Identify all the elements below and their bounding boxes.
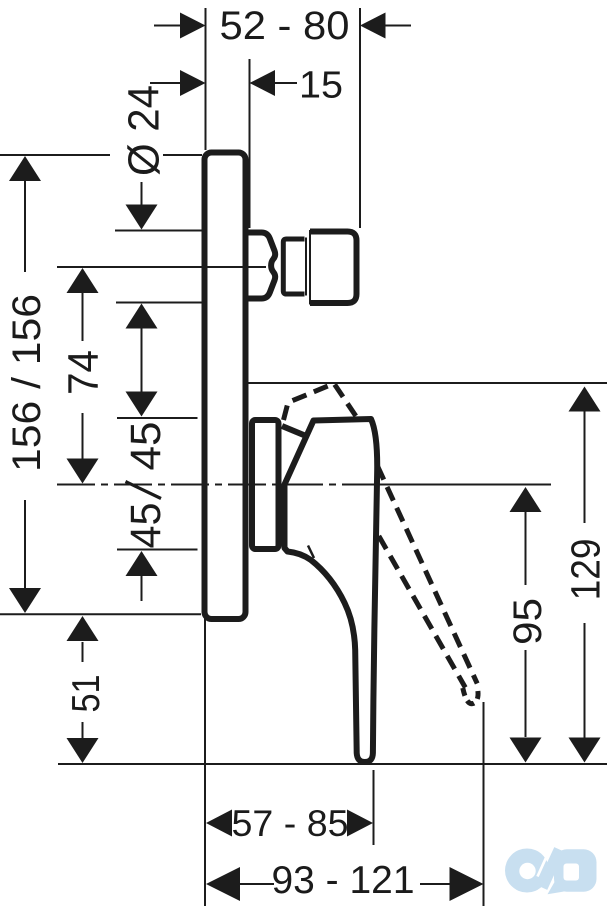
extension line: wall plane (right ext of 15) xyxy=(249,59,251,228)
spout centerline xyxy=(57,266,266,268)
spout cap left edge (thin) xyxy=(309,230,311,305)
svg-text:45: 45 xyxy=(122,503,170,549)
extension line: bottom-left (below plate, ext for 57-85 and 93-121) xyxy=(204,617,206,906)
svg-text:15: 15 xyxy=(299,65,343,107)
spout outer cap xyxy=(310,232,357,304)
dimension 52-80: right outside arrow xyxy=(385,25,411,27)
dimension 51: vertical dimension line with inside arrows xyxy=(82,642,84,662)
extension line: dashed handle tip (right ext of 93-121) xyxy=(483,702,485,906)
svg-text:93 - 121: 93 - 121 xyxy=(272,859,415,902)
extension line: plate top edge (broken by O24 label) xyxy=(0,154,110,156)
logo: white slit between c and diagonal xyxy=(538,850,550,877)
extension line: handle sleeve bottom xyxy=(117,549,198,551)
extension line: spout bottom face xyxy=(116,302,202,304)
dimension 45/45: slash of value label xyxy=(126,482,162,499)
svg-text:57 - 85: 57 - 85 xyxy=(232,803,349,844)
handle sleeve (escutcheon of cartridge) xyxy=(252,420,279,549)
logo: connecting diagonal band xyxy=(542,850,560,888)
baseline (bottom reference line) xyxy=(58,763,607,765)
dimension 129: vertical dimension line with inside arrows xyxy=(584,411,586,523)
spout centerline overlay across plate and cone xyxy=(206,266,264,268)
dashed handle lever upper edge xyxy=(378,466,478,684)
logo: letter c (light blue ring) xyxy=(505,849,549,893)
extension line: spout tip (right ext of 52-80) xyxy=(359,8,361,228)
dimension O24: top outside arrow xyxy=(141,182,143,205)
svg-text:74: 74 xyxy=(60,350,108,395)
handle lever (closed position, solid) xyxy=(285,419,378,762)
extension line: handle sleeve top xyxy=(117,417,198,419)
dimension 15: left outside arrow xyxy=(150,82,181,84)
dimension 156/156: vertical dimension line with inside arrows xyxy=(24,180,26,272)
section tick on lever neck xyxy=(308,546,314,559)
dashed handle tip xyxy=(463,687,478,704)
dimension 95: vertical dimension line with inside arrows xyxy=(525,512,527,585)
extension line: plate front face (left ext of 52-80 and 15) xyxy=(205,8,207,150)
dimension 93-121: inside arrows with tails xyxy=(240,883,274,885)
svg-text:51: 51 xyxy=(65,675,108,713)
dimension 45/45: top outside arrow xyxy=(141,337,143,392)
spout ring xyxy=(283,239,304,294)
extension line: plate bottom edge xyxy=(0,613,201,615)
logo: letter d (light blue) xyxy=(554,849,597,892)
handle pivot centerline (dash-dot) xyxy=(57,484,358,486)
svg-text:Ø 24: Ø 24 xyxy=(120,85,169,176)
handle pivot centerline overlay (dash-dot over body) xyxy=(57,484,358,486)
dashed handle lever lower edge xyxy=(379,536,466,688)
svg-text:52 - 80: 52 - 80 xyxy=(220,4,350,48)
svg-text:45: 45 xyxy=(122,422,170,471)
extension line: solid handle tip (right ext of 57-85) xyxy=(373,770,375,845)
dashed handle head (open position) xyxy=(284,384,359,421)
extension line: spout top face xyxy=(115,230,202,232)
dimension O24: bottom outside arrow xyxy=(141,328,143,352)
dimension 52-80: left outside arrow xyxy=(154,25,181,27)
dimension 45/45: bottom outside arrow xyxy=(141,576,143,601)
spout ring right edge (thin) xyxy=(305,238,307,296)
svg-text:156 / 156: 156 / 156 xyxy=(5,294,49,472)
spout connector cone xyxy=(247,233,275,299)
svg-text:129: 129 xyxy=(563,538,609,600)
svg-text:95: 95 xyxy=(506,598,550,645)
dimension 74: vertical dimension line with inside arrows xyxy=(82,292,84,341)
dimension 15: right outside arrow xyxy=(275,82,297,84)
extension line: dashed-handle top (reference for 129) xyxy=(245,382,607,384)
escutcheon plate (side view) xyxy=(205,153,246,620)
dimension 57-85: inside arrows xyxy=(206,810,232,837)
handle cone top edge xyxy=(282,426,309,437)
